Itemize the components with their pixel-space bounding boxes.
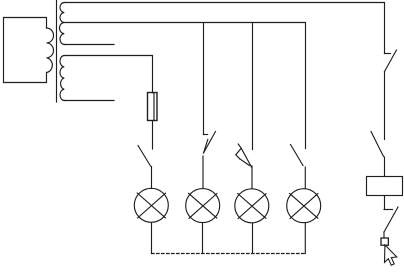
switch S3 actuator stub — [238, 144, 241, 148]
wire: lamp L1 to dashed bus — [151, 223, 153, 254]
transformer T1 primary coil — [47, 28, 54, 73]
wire: top bus from winding 1 to right branch — [64, 3, 384, 54]
lamp L1 cross — [137, 193, 165, 218]
transformer T1 core — [56, 0, 58, 102]
wire: lamp L3 to dashed bus — [252, 223, 254, 254]
lamp L4 cross — [290, 193, 318, 218]
switch S4 blade — [291, 145, 304, 166]
wire: switch S2 to lamp L2 — [202, 156, 204, 189]
fuse F1 through line — [153, 94, 155, 121]
switch S3 arrow head — [236, 148, 241, 159]
wire: switch S7 to terminal — [383, 232, 385, 238]
lamp L1 bulb — [134, 188, 168, 222]
wire: switch S3 to lamp L3 — [251, 166, 253, 189]
wire: winding 2 top tap to fuse F1 — [64, 56, 152, 93]
wire: winding 1 bottom tap stub — [64, 44, 114, 46]
lamp L3 cross — [238, 194, 266, 219]
switch S5 blade — [385, 50, 397, 72]
transformer T1 primary loop wiring — [4, 18, 47, 83]
wire: second bus from winding 1 center tap with branch-4 drop — [64, 23, 305, 149]
switch S7 fixed contact hook — [384, 209, 393, 211]
lamp L3 bulb — [235, 189, 269, 223]
switch S5 fixed contact hook — [385, 53, 391, 55]
wire: switch S1 to lamp L1 — [151, 167, 153, 189]
switch S1 blade — [138, 146, 151, 167]
wire: switch S5 to switch S6 — [384, 72, 386, 140]
wire: lamp L4 to dashed bus — [304, 223, 306, 254]
switch S6 blade — [371, 132, 384, 157]
switch S2 barb — [204, 140, 208, 154]
switch S2 fixed contact hook — [204, 134, 208, 136]
transformer T1 secondary winding 1 coil — [59, 3, 64, 45]
wire: lamp L2 to dashed bus — [202, 223, 204, 254]
wire: switch S4 to lamp L4 — [304, 167, 306, 189]
wire: fuse F1 to switch S1 — [152, 121, 154, 150]
wire: relay K1 to switch S7 — [384, 196, 386, 210]
dashed return bus — [152, 253, 306, 255]
wire: winding 2 bottom tap stub — [64, 100, 114, 102]
terminal block — [381, 238, 388, 245]
switch S3 blade — [240, 148, 252, 168]
lamp L4 bulb — [287, 189, 321, 223]
wire: branch 3 drop from second bus — [252, 23, 254, 150]
wire: switch S6 to relay K1 — [384, 157, 386, 177]
relay coil K1 — [367, 177, 403, 196]
switch S2 blade — [204, 132, 216, 154]
lamp L2 cross — [189, 193, 217, 218]
mouse cursor — [385, 245, 397, 265]
switch S7 blade — [384, 207, 398, 232]
fuse F1 body — [148, 93, 158, 121]
lamp L2 bulb — [186, 189, 220, 223]
transformer T1 secondary winding 2 coil — [60, 56, 64, 101]
wire: branch 2 drop from second bus — [203, 23, 205, 135]
